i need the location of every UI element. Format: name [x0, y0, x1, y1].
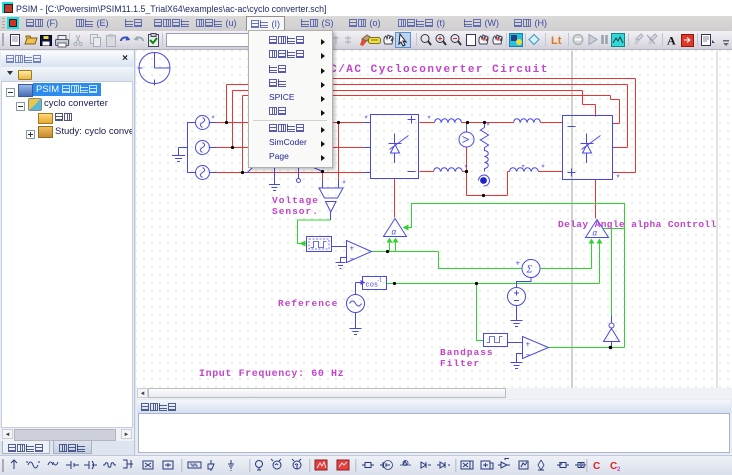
svg-text:*: *	[522, 164, 525, 173]
svg-text:C: C	[593, 461, 600, 472]
svg-text:−: −	[350, 255, 355, 264]
svg-text:*: *	[343, 180, 346, 189]
svg-text:*: *	[428, 115, 431, 124]
svg-text:A: A	[667, 34, 676, 48]
svg-text:−: −	[526, 351, 531, 360]
svg-text:+: +	[516, 259, 521, 268]
svg-text:*: *	[487, 122, 490, 131]
svg-text:+: +	[526, 340, 531, 349]
svg-text:*: *	[212, 115, 215, 124]
svg-text:2: 2	[617, 467, 621, 473]
svg-text:α: α	[392, 228, 397, 237]
svg-text:*: *	[542, 164, 545, 173]
svg-text:Lt: Lt	[551, 35, 562, 47]
svg-text:cos: cos	[366, 282, 379, 290]
svg-text:-1: -1	[378, 278, 383, 284]
svg-text:Σ: Σ	[526, 265, 533, 276]
svg-text:−: −	[522, 278, 527, 287]
svg-text:*: *	[365, 115, 368, 124]
svg-text:+: +	[350, 244, 355, 253]
svg-text:*: *	[617, 174, 620, 183]
